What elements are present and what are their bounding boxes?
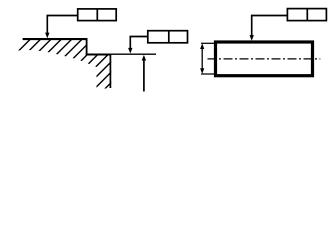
arrowhead of leader 2 [128, 48, 132, 54]
dimension arrowhead down [200, 68, 204, 74]
lower surface line [86, 53, 112, 55]
callout box 2 [148, 31, 188, 43]
leader 1 [47, 16, 78, 34]
step vertical edge [86, 38, 88, 55]
wire: leader 1 horizontal [47, 15, 78, 17]
left stepped part [0, 30, 164, 92]
hatching [0, 30, 164, 92]
centerline (dash-dot) [208, 58, 321, 60]
wire: leader 3 vertical [251, 16, 253, 37]
wire: leader 2 horizontal [130, 36, 148, 38]
extension line top [201, 42, 216, 44]
leader 2 [130, 37, 148, 49]
wire: leader 1 vertical [46, 16, 48, 34]
dimension arrow below extension line [142, 55, 146, 92]
right figure: shaft rectangle [216, 42, 313, 76]
arrowhead of leader 1 [45, 33, 49, 39]
arrowhead pointing up [142, 55, 146, 61]
extension line bottom [201, 73, 216, 75]
extension line of lower surface [111, 53, 156, 55]
wire: leader 2 vertical [129, 37, 131, 49]
top surface line [23, 38, 88, 40]
wire: dimension shaft [143, 59, 145, 92]
arrowhead of leader 3 [250, 35, 254, 41]
right vertical edge [109, 54, 111, 88]
wire: leader 3 horizontal [251, 15, 287, 17]
callout box 1 [78, 9, 117, 21]
callout box 3 [287, 9, 326, 21]
leader 3 [251, 16, 287, 37]
dimension line [201, 46, 203, 72]
dimension arrowhead up [200, 43, 204, 49]
